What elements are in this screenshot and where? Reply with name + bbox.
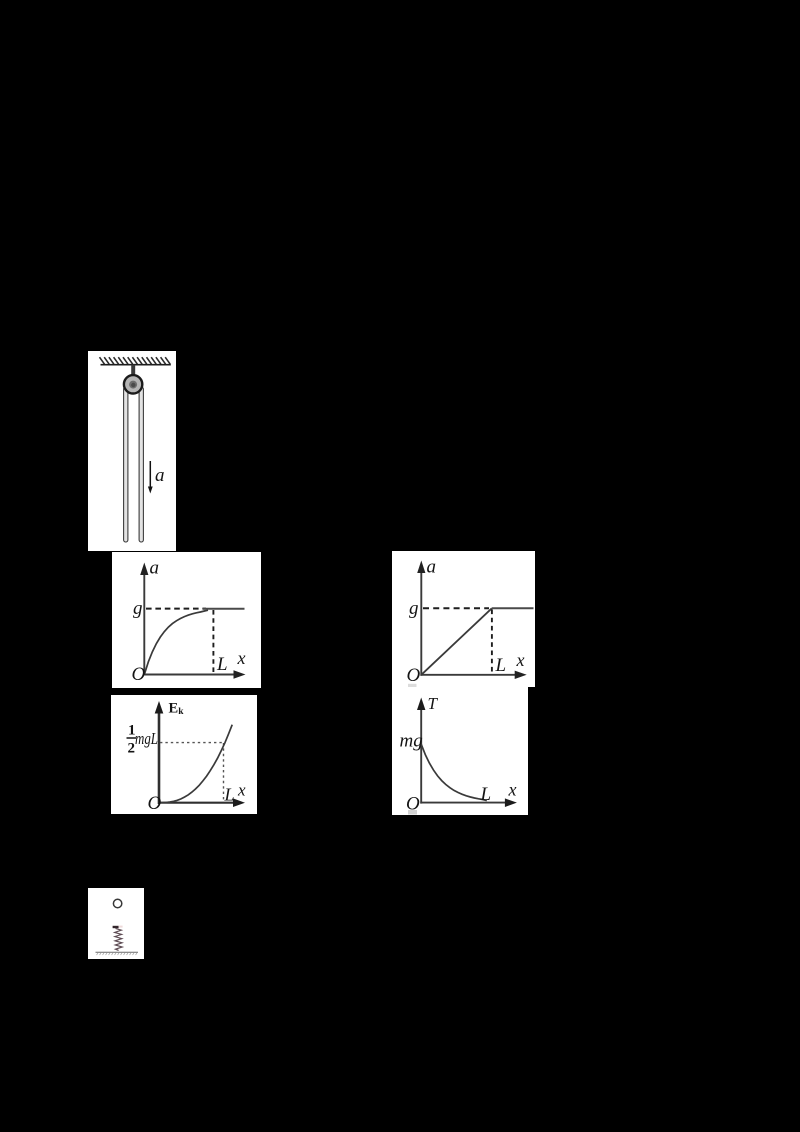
spring top cap — [113, 926, 119, 928]
y-axis — [420, 571, 422, 676]
svg-text:E: E — [169, 701, 179, 717]
svg-text:L: L — [216, 654, 228, 675]
pulley hub — [129, 381, 137, 389]
svg-text:L: L — [495, 655, 507, 676]
svg-text:g: g — [409, 598, 419, 619]
rope left strand — [124, 387, 128, 542]
asymptote line — [203, 608, 245, 610]
dashed drop at L — [491, 610, 493, 675]
svg-text:mg: mg — [400, 731, 423, 752]
graph A: a vs x, saturating curve — [112, 552, 261, 688]
svg-text:g: g — [133, 598, 143, 619]
svg-text:T: T — [428, 694, 439, 713]
dashed level g — [146, 608, 206, 610]
smudge under O — [408, 810, 417, 815]
svg-text:a: a — [427, 557, 437, 578]
figure: ball above spring on ground — [88, 888, 144, 959]
graph C: Ek vs x, convex rising — [111, 695, 257, 814]
ceiling line — [101, 364, 171, 366]
rising line — [421, 608, 492, 675]
dotted drop at L — [223, 743, 225, 802]
x-axis — [420, 674, 517, 676]
rope right strand — [139, 387, 143, 542]
dashed drop at L — [212, 610, 214, 674]
spring coil — [115, 928, 123, 950]
x-axis — [158, 802, 236, 804]
graph D: T vs x, decaying curve — [392, 687, 528, 815]
curve T(x) — [421, 744, 487, 800]
svg-text:x: x — [508, 780, 517, 800]
x-axis — [143, 674, 236, 676]
curve Ek(x) — [159, 725, 232, 803]
svg-text:2: 2 — [128, 741, 136, 757]
svg-text:O: O — [132, 664, 146, 685]
svg-text:a: a — [150, 558, 160, 579]
svg-text:O: O — [407, 665, 421, 686]
svg-text:k: k — [178, 707, 184, 717]
dashed level g — [423, 607, 489, 609]
smudge under O — [408, 684, 417, 687]
acceleration arrow a — [148, 461, 153, 494]
dotted level — [160, 742, 223, 744]
x-axis — [420, 802, 507, 804]
svg-text:L: L — [480, 784, 492, 805]
svg-text:x: x — [237, 648, 246, 668]
pulley bracket — [131, 365, 135, 386]
svg-text:L: L — [224, 785, 235, 805]
ground hatched line — [96, 951, 139, 953]
svg-text:mgL: mgL — [135, 729, 158, 748]
figure: pulley with rope over it — [88, 351, 176, 551]
pulley wheel — [124, 375, 142, 393]
svg-text:x: x — [516, 650, 525, 670]
flat line — [492, 607, 534, 609]
y-axis — [420, 707, 422, 804]
svg-text:O: O — [148, 793, 162, 814]
y-axis — [143, 573, 145, 675]
y-axis — [158, 710, 161, 804]
ceiling hatching — [100, 357, 171, 364]
svg-text:x: x — [237, 781, 246, 800]
graph B: a vs x, linear then flat — [392, 551, 535, 687]
curve a(x) — [144, 610, 208, 674]
svg-text:a: a — [155, 465, 165, 486]
ball — [113, 899, 121, 907]
